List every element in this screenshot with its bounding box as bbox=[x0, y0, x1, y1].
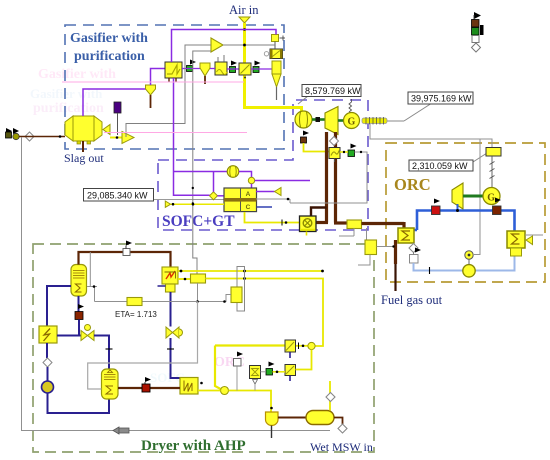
wire brown to ORC evaporator bbox=[362, 222, 405, 225]
HRSG box bbox=[347, 220, 362, 229]
valve box VB1 bbox=[329, 148, 340, 163]
MSW feeder cup bbox=[266, 412, 279, 426]
filter F1 green bbox=[187, 66, 193, 72]
wire navy generator bottom to valve bbox=[78, 296, 80, 312]
wire brown evaporator outlet down bbox=[394, 240, 397, 264]
wire gray fan outlet bbox=[223, 44, 275, 46]
white circle node left of feeder bbox=[264, 52, 268, 56]
filter green GT bbox=[348, 150, 355, 157]
turbine exhaust pipes brown bbox=[325, 132, 328, 223]
burner afterburner bbox=[300, 208, 327, 236]
ORC turbine T2 bbox=[452, 183, 463, 209]
wire purple bbox=[210, 68, 215, 70]
wire yellow junction to MSW feed bbox=[229, 391, 272, 413]
white square + flag on exhaust bbox=[234, 359, 242, 367]
wire purple to blower bbox=[174, 171, 228, 173]
expansion valve mid bbox=[166, 327, 183, 338]
svg-text:Air in: Air in bbox=[229, 3, 259, 17]
svg-text:SOFC+GT: SOFC+GT bbox=[162, 213, 235, 230]
wire purple blower to preheat circle bbox=[239, 172, 252, 178]
cyclone small C1 bbox=[146, 85, 156, 95]
label 8,579.769 kW bbox=[298, 85, 361, 105]
wire yellow drum top bbox=[329, 381, 331, 411]
generator G2 bbox=[483, 188, 500, 205]
wire gray to ORC electric box bbox=[370, 124, 492, 148]
damper box 2 bbox=[285, 365, 296, 382]
wire navy compressor down bbox=[170, 292, 172, 327]
svg-text:C: C bbox=[246, 204, 251, 211]
absorber bbox=[180, 378, 198, 395]
desorber column bbox=[71, 265, 87, 297]
wire purple gasifier top bbox=[83, 89, 146, 116]
legend stack top right bbox=[472, 12, 484, 52]
wire yellow absorber to junction bbox=[198, 390, 221, 392]
svg-text:Gasifier with: Gasifier with bbox=[70, 31, 148, 46]
svg-text:Gasifier with: Gasifier with bbox=[38, 67, 116, 82]
dryer fan box top bbox=[178, 278, 191, 280]
wire gray dryer controls bbox=[198, 283, 232, 302]
wire purple long down bbox=[174, 78, 210, 195]
yellow inlet triangle SOFC bbox=[165, 201, 170, 207]
feed input icons left bbox=[6, 128, 35, 141]
svg-text:ORC: ORC bbox=[394, 175, 431, 194]
wire navy cathode stub bbox=[257, 206, 273, 208]
wire brown vapor to AHP compressor bbox=[79, 252, 171, 267]
svg-text:ETA= 1.713: ETA= 1.713 bbox=[115, 310, 157, 319]
small square V1 bbox=[272, 35, 279, 42]
valve maroon right bbox=[493, 206, 502, 215]
AHP evaporator column bbox=[102, 369, 119, 399]
refrigerant valve bbox=[81, 325, 94, 341]
wire purple train bbox=[182, 68, 200, 70]
solution HX bbox=[39, 326, 57, 343]
bus bar element bbox=[362, 117, 387, 125]
svg-text:G: G bbox=[487, 192, 495, 203]
wire gasifier gas out yellow bbox=[110, 137, 122, 139]
wire gray valve to right bbox=[290, 152, 367, 203]
rotary feeder R1 bbox=[270, 49, 283, 59]
wire long gray down-left bbox=[22, 137, 331, 431]
gasifier G1 bbox=[65, 116, 110, 144]
cyclone C3 tall bbox=[272, 61, 281, 100]
turbine T1 bbox=[325, 107, 338, 135]
wire fuel gas out stub bbox=[394, 264, 396, 291]
valve red left bbox=[432, 206, 441, 215]
label 2,310.059 kW bbox=[409, 153, 487, 171]
condenser HX ORC right bbox=[507, 231, 533, 256]
wire gray recycle to fan bbox=[126, 45, 211, 137]
dryer region box bbox=[33, 244, 374, 452]
vent valve box bbox=[250, 366, 261, 391]
wire yellow air line B bbox=[206, 279, 324, 347]
gasifier region box bbox=[65, 25, 284, 149]
wire navy shx to refrig valve bbox=[57, 335, 81, 337]
svg-text:Wet MSW in: Wet MSW in bbox=[310, 440, 373, 454]
damper box 1 bbox=[285, 340, 296, 358]
cone sink on gas out bbox=[122, 132, 134, 144]
wire navy to evaporator column bbox=[94, 336, 109, 370]
wire light blue condensate loop bbox=[414, 248, 515, 271]
wire air yellow main bbox=[245, 23, 302, 112]
small circle node bbox=[248, 177, 254, 183]
ORC region box bbox=[386, 143, 545, 282]
SOFC stack bbox=[224, 188, 257, 212]
wire feed to gasifier bbox=[19, 136, 65, 138]
wire navy shx down chain bbox=[46, 343, 48, 358]
evaporator HX ORC bbox=[398, 228, 414, 243]
wire brown drum out bbox=[334, 418, 343, 425]
solution pump bbox=[42, 381, 54, 393]
generator G1 bbox=[344, 99, 360, 129]
e meter circle bbox=[465, 251, 473, 265]
wire yellow damper manifold bbox=[215, 344, 285, 346]
svg-text:Fuel gas out: Fuel gas out bbox=[381, 293, 443, 307]
svg-text:G: G bbox=[348, 117, 356, 128]
shaft T2-G2 dark green bbox=[463, 195, 483, 198]
wire yellow stack bottom to burner bbox=[245, 212, 301, 223]
splitter tall rect bbox=[237, 267, 245, 312]
wire navy valve to absorber bbox=[171, 338, 181, 378]
svg-text:8,579.769 kW: 8,579.769 kW bbox=[305, 86, 361, 96]
AHP compressor bbox=[158, 267, 179, 292]
SOFC+GT region box bbox=[158, 100, 368, 230]
diamond + square chain under evaporator bbox=[409, 243, 421, 263]
compressor K1 bbox=[295, 111, 312, 128]
svg-text:Slag out: Slag out bbox=[64, 151, 104, 165]
wire purple anode out to cone bbox=[256, 191, 275, 193]
filter F3 green bbox=[253, 67, 259, 73]
svg-text:purification: purification bbox=[33, 101, 104, 116]
svg-text:29,085.340 kW: 29,085.340 kW bbox=[87, 191, 148, 201]
wire navy generator loop left bbox=[47, 286, 71, 326]
fan triangle FAN1 bbox=[211, 38, 223, 52]
air inlet triangle bbox=[239, 17, 250, 23]
wire blue vapor loop top bbox=[414, 211, 515, 232]
wire purple to cyclone C3 bbox=[251, 68, 272, 70]
wire navy bottom run bbox=[48, 393, 110, 413]
sorbent feeder dark rect bbox=[114, 102, 121, 113]
blower B1 bbox=[227, 166, 239, 178]
wire purple top manifold bbox=[172, 30, 277, 63]
wire yellow dryer exhaust down bbox=[215, 346, 222, 390]
svg-text:Dryer with AHP: Dryer with AHP bbox=[141, 438, 246, 454]
svg-text:39,975.169 kW: 39,975.169 kW bbox=[411, 94, 472, 104]
junction circle yellow bbox=[221, 387, 229, 395]
white diamond under turbine bbox=[330, 137, 339, 146]
wire magenta lines bbox=[62, 81, 244, 83]
wire slag out stub bbox=[82, 141, 84, 152]
MSW drum capsule bbox=[306, 411, 334, 425]
wire purple long right bbox=[255, 180, 310, 182]
cyclone C2 bbox=[200, 63, 210, 76]
electric interface box bbox=[486, 148, 501, 157]
pump ORC bbox=[463, 265, 475, 277]
diamond node fuel bbox=[210, 192, 218, 200]
electric line with breaks to generator bbox=[490, 156, 495, 187]
brown square under compressor bbox=[301, 137, 307, 143]
svg-text:purification: purification bbox=[74, 49, 145, 64]
wire brown chilled duct to absorber bbox=[118, 387, 180, 389]
svg-text:A: A bbox=[246, 191, 251, 198]
label 29,085.340 kW bbox=[84, 189, 257, 202]
filter F2 green bbox=[230, 67, 236, 73]
wire gray down to e-meter bbox=[474, 139, 480, 255]
wire purple cyclone to HX bbox=[151, 69, 166, 86]
label 39,975.169 kW bbox=[387, 92, 473, 121]
scrubber S1 bbox=[215, 55, 228, 75]
wire yellow compressor bleed bbox=[304, 143, 330, 152]
svg-text:2,310.059 kW: 2,310.059 kW bbox=[412, 161, 468, 171]
wire gray anode recycle bbox=[256, 198, 290, 200]
shaft T1-G bbox=[338, 119, 344, 122]
arrow marker on bottom gray wire bbox=[113, 427, 129, 434]
wire purple bbox=[227, 68, 239, 70]
green fan square bbox=[266, 369, 273, 376]
ETA calc box bbox=[127, 298, 142, 306]
wire gray second vertical bbox=[193, 51, 211, 274]
shaft K1-T1 bbox=[312, 118, 325, 121]
economizer yellow box under HRSG bbox=[339, 228, 395, 265]
wire yellow damper2 riser bbox=[296, 350, 312, 370]
heat exchanger HX1 bbox=[165, 62, 182, 82]
wire brown cup to drum bbox=[278, 417, 306, 419]
damper D1 bbox=[239, 63, 251, 79]
humidifier box bbox=[231, 287, 242, 303]
wire yellow air line A bbox=[178, 270, 323, 272]
